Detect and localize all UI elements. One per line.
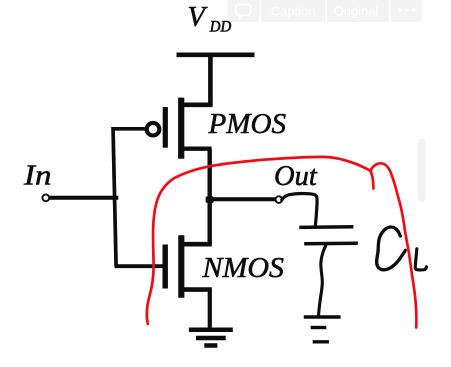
transistor NMOS xyxy=(165,235,212,297)
scrollbar thumb xyxy=(418,139,426,202)
wire: gate bus to NMOS gate xyxy=(115,264,163,268)
red annotation: main encircling stroke (left and top) xyxy=(147,157,417,328)
ground symbol (capacitor) xyxy=(304,317,341,342)
svg-text:DD: DD xyxy=(209,19,231,36)
wire: Out terminal to load capacitor (hand-drawn) xyxy=(282,194,317,226)
wire: VDD rail to PMOS source xyxy=(208,55,213,106)
NMOS channel bar xyxy=(178,235,184,297)
ground symbol (main) xyxy=(189,330,233,346)
power rail VDD bar xyxy=(177,52,255,57)
transistor PMOS xyxy=(147,98,213,159)
node: output junction dot xyxy=(206,196,214,203)
output terminal circle xyxy=(276,196,283,203)
toolbar speech-bubble icon xyxy=(236,5,251,19)
PMOS gate bar xyxy=(163,107,168,148)
input terminal circle xyxy=(42,194,49,201)
svg-text:Caption: Caption xyxy=(271,3,316,18)
NMOS drain contact (top) xyxy=(181,242,212,247)
wire: output node to Out terminal xyxy=(210,197,277,201)
NMOS source contact (bottom) xyxy=(181,287,212,292)
svg-text:Original: Original xyxy=(334,3,379,18)
toolbar ellipsis dots xyxy=(398,8,415,12)
toolbar segment: Original button xyxy=(327,0,389,22)
wire: capacitor to ground (hand-drawn) xyxy=(319,245,326,316)
value label CL: handwritten subscript L xyxy=(415,249,426,270)
wire: In terminal to gate bus xyxy=(50,196,119,200)
svg-text:PMOS: PMOS xyxy=(207,109,286,140)
wire: gate bus vertical xyxy=(113,127,116,266)
PMOS gate bubble xyxy=(147,123,160,136)
wire: PMOS gate to gate bus xyxy=(113,127,147,131)
svg-text:Out: Out xyxy=(274,161,318,192)
PMOS channel bar xyxy=(178,98,184,159)
PMOS source contact (top) xyxy=(181,103,213,108)
toolbar segment: Caption button xyxy=(261,0,326,22)
NMOS gate bar xyxy=(162,245,167,289)
toolbar segment: more (ellipsis) button xyxy=(391,0,423,22)
capacitor CL bottom plate xyxy=(304,241,358,245)
toolbar overlay background segment: comment button xyxy=(228,0,260,22)
red annotation: right descending stroke with loop xyxy=(370,163,416,327)
value label CL: handwritten C xyxy=(377,227,406,270)
svg-text:In: In xyxy=(23,159,52,191)
PMOS drain contact (bottom) xyxy=(181,146,212,150)
wire: PMOS drain to NMOS drain (output branch) xyxy=(207,149,211,245)
capacitor CL top plate xyxy=(299,225,353,229)
svg-text:V: V xyxy=(188,2,209,33)
svg-text:NMOS: NMOS xyxy=(201,253,284,284)
supply label VDD xyxy=(188,2,232,36)
wire: NMOS source to ground xyxy=(208,290,212,329)
